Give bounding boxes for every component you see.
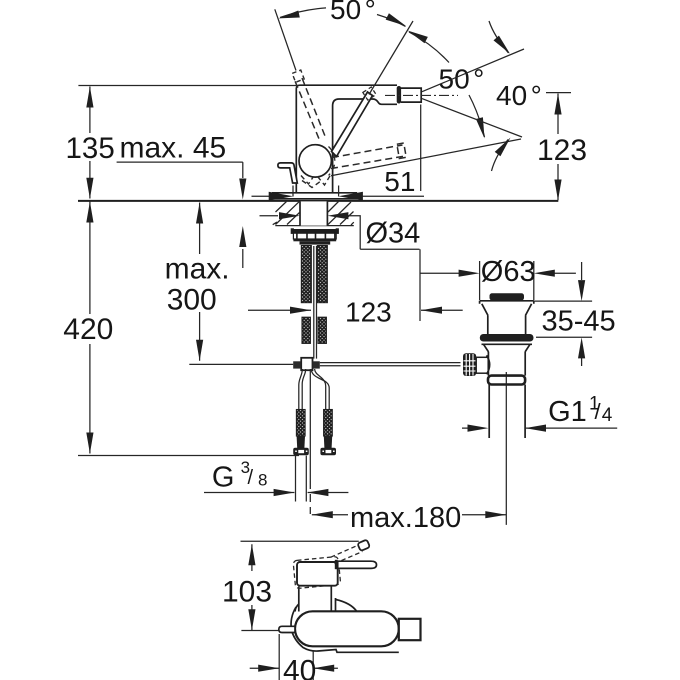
svg-text:40°: 40° <box>496 80 542 111</box>
arc 50 deg handle lift <box>280 8 326 18</box>
dimension 135 <box>89 87 91 199</box>
hoses between studs <box>314 246 317 359</box>
base plate outline arcs <box>295 604 299 612</box>
dashed cap at handle tip <box>363 87 376 100</box>
dimension 123 horizontal (hose length) <box>248 309 463 311</box>
pop-up rod tab <box>279 626 295 632</box>
upper body <box>488 316 526 335</box>
dimension arrows D34 at shank <box>260 215 279 217</box>
nozzle aerator cap <box>401 88 421 102</box>
pop-up rod hook at rear <box>278 163 297 183</box>
svg-text:103: 103 <box>222 576 272 609</box>
dashed cartridge V marks <box>301 176 314 185</box>
handle axis extension thin line L2 <box>369 21 413 95</box>
handle axis line extended (to 51 / angle legs) <box>331 139 521 176</box>
handle block <box>297 562 338 586</box>
dimension 123 right <box>546 92 571 94</box>
dimension 420 <box>89 202 91 454</box>
opposing arrowhead at handle axis <box>406 27 428 43</box>
threaded studs lower segment <box>302 317 310 343</box>
deck cross-section <box>275 225 354 227</box>
dimension 103 <box>251 544 253 630</box>
dimension max. 300 <box>199 203 201 361</box>
dimension 35-45 <box>533 300 592 302</box>
collar ring <box>488 376 525 385</box>
pivot ball circle <box>299 145 331 177</box>
nozzle <box>397 86 401 104</box>
lever joint <box>335 560 338 569</box>
svg-text:/: / <box>248 467 254 489</box>
body outline <box>296 85 397 193</box>
arc 50 deg second (to horizontal handle position) <box>409 32 449 63</box>
lower body <box>488 352 525 376</box>
svg-text:4: 4 <box>602 405 613 426</box>
hose crimp collars <box>297 436 305 448</box>
plug cap <box>490 293 525 300</box>
svg-text:max. 45: max. 45 <box>120 132 227 165</box>
shared extension line right of hoses <box>419 249 421 321</box>
thin extension of up rod axis <box>275 9 296 70</box>
tailpipe <box>489 385 525 439</box>
rod clamp block <box>301 358 312 370</box>
svg-text:max.: max. <box>165 252 230 285</box>
svg-text:123: 123 <box>345 297 392 328</box>
flange top <box>480 300 534 302</box>
center pull rod <box>505 372 507 525</box>
svg-text:Ø63: Ø63 <box>481 256 536 288</box>
handle block dashed outline (swivel position) <box>293 556 341 588</box>
pop-up linkage horizontal rod <box>189 363 293 365</box>
svg-text:/: / <box>595 399 602 424</box>
G3/8 connector tails <box>296 456 307 502</box>
outlet square <box>399 619 421 640</box>
dashed pivot arc <box>329 147 335 176</box>
svg-text:G: G <box>212 461 235 493</box>
svg-text:51: 51 <box>384 166 415 197</box>
svg-text:Ø34: Ø34 <box>366 218 421 250</box>
solid handle rod <box>332 92 373 157</box>
dashed lever up position <box>331 545 359 557</box>
neck <box>299 587 336 612</box>
arrow 135 bottom <box>86 178 93 199</box>
svg-text:50°: 50° <box>330 0 376 25</box>
threaded studs upper segment <box>301 246 311 303</box>
body width arrows <box>252 195 271 197</box>
dimension 40 <box>279 634 313 680</box>
svg-text:135: 135 <box>66 132 115 165</box>
flexible hoses curving down <box>299 369 303 410</box>
svg-text:35-45: 35-45 <box>542 306 616 338</box>
handle horizontal position dashed rod <box>332 145 403 158</box>
dashed cap of up rod <box>292 70 304 82</box>
solid lever rod <box>338 561 377 568</box>
pop-up vertical rod <box>309 369 311 481</box>
dimension max.180 <box>312 514 507 516</box>
svg-text:300: 300 <box>167 284 217 317</box>
locknut and washers under deck <box>291 228 294 234</box>
spray angle legs 40 deg <box>422 49 524 92</box>
svg-text:40: 40 <box>283 655 316 680</box>
ref line bottom <box>241 630 292 632</box>
dimension D63 <box>480 261 534 300</box>
body width extension lines <box>293 186 339 197</box>
deck surface line <box>78 200 558 202</box>
nozzle centerline dash-dot <box>385 94 458 96</box>
main body capsule <box>295 611 399 646</box>
svg-text:max.180: max.180 <box>350 502 461 534</box>
arrow 135 top <box>86 87 93 108</box>
knurled knob <box>463 353 476 376</box>
threaded shank through deck <box>300 201 327 225</box>
escutcheon top <box>272 192 357 194</box>
hose nuts <box>293 448 309 455</box>
rubber seal <box>480 334 534 342</box>
ref line top <box>241 540 359 542</box>
dimension 51 <box>420 105 422 192</box>
handle up position dashed rod <box>295 81 319 140</box>
ref line top of faucet <box>78 85 296 87</box>
svg-text:420: 420 <box>63 313 113 346</box>
braided hose ends <box>296 410 305 437</box>
svg-text:8: 8 <box>258 471 267 490</box>
svg-text:123: 123 <box>537 134 587 167</box>
ref line bottom 420 <box>78 455 299 457</box>
svg-text:G1: G1 <box>548 396 587 428</box>
dashed lever tip cap <box>357 540 370 552</box>
